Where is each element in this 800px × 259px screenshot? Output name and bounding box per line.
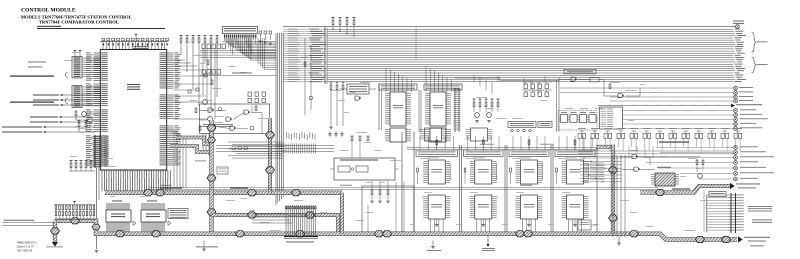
vertical bus from watchdog area bbox=[268, 118, 272, 194]
U801 bottom pin labels bbox=[101, 172, 102, 178]
SQL output header U811 bbox=[464, 150, 504, 157]
verticals from resistor row to hold logic bbox=[628, 146, 630, 158]
ground under U812B bbox=[528, 219, 530, 224]
mux bus sheet label bbox=[46, 246, 63, 249]
line driver IC U810B bbox=[428, 195, 445, 219]
discrete wires right of U801 bbox=[202, 48, 204, 95]
line driver IC U812A bbox=[521, 160, 538, 184]
resistor R810 bbox=[195, 108, 197, 113]
dashed group resistor pack bbox=[558, 111, 597, 131]
address bus knots bbox=[144, 190, 153, 196]
diode/resistor cluster CR801-CR808 bbox=[524, 84, 528, 89]
address bus label bbox=[160, 188, 182, 189]
address bus thick bbox=[105, 191, 342, 195]
hold bus control label bbox=[659, 142, 689, 143]
hold logic to offpage wires bbox=[656, 147, 712, 149]
resistor above U812A bbox=[528, 140, 530, 145]
resistor R813 bbox=[211, 80, 213, 85]
line phones label box bbox=[709, 192, 726, 197]
pull-up resistor row R825-R828 bbox=[202, 70, 205, 75]
net label MUX BUS 7-0 with brace bbox=[10, 102, 54, 103]
cable connector bar bbox=[284, 236, 318, 238]
resistor R812 bbox=[207, 60, 209, 65]
bus spine vertical bbox=[324, 27, 326, 84]
bi-directional data bus drivers note box bbox=[168, 209, 188, 219]
line driver IC U812B bbox=[521, 195, 538, 219]
bottom bus sheet label bbox=[744, 236, 770, 239]
signal lines from aux box to offpage circles bbox=[623, 110, 734, 112]
bundle elbow wires to comb bbox=[276, 143, 285, 145]
discrete group with transistors mid sheet bbox=[473, 99, 475, 101]
labels above row B ICs bbox=[427, 157, 439, 160]
bus driver IC U802A bottom pins bbox=[106, 222, 108, 232]
junction dots on bus spine bbox=[324, 29, 325, 30]
connector label 4-19 channel bbox=[748, 205, 772, 208]
bus feeder wires from bundle bbox=[283, 28, 325, 30]
gate U806A bbox=[571, 77, 576, 81]
RAM IC U804 body bbox=[390, 92, 406, 126]
resistor R803 bbox=[75, 111, 77, 116]
wire bundle from watchdog descending bbox=[202, 134, 204, 151]
resistor network RN802 bbox=[72, 86, 82, 108]
vertical thick bus knots bbox=[207, 125, 216, 131]
gate U806B bbox=[618, 94, 623, 98]
vertical bus right section bbox=[611, 145, 615, 234]
wires under hold logic descending bbox=[612, 155, 614, 237]
U821 labels bbox=[657, 166, 671, 169]
discretes beside U810A bbox=[449, 163, 451, 180]
feeder lines into cable bbox=[252, 213, 286, 215]
watchdog logic group box bbox=[200, 104, 270, 134]
SQL output header U813 bbox=[555, 150, 595, 157]
ground under U813B bbox=[574, 219, 576, 224]
pin bus to hold logic bbox=[640, 186, 730, 193]
cable to sheet 2 vertical lines bbox=[285, 205, 287, 237]
small box right section lower bbox=[578, 220, 591, 230]
grid top bus corner segment bbox=[596, 145, 611, 149]
fan-out wires from J801 to bundle bbox=[224, 38, 226, 42]
pull-up resistor row R820-R824 bbox=[202, 44, 205, 49]
left comb at x600 mid bbox=[598, 162, 604, 164]
capacitor C810 bbox=[188, 90, 191, 93]
offpage circles column right mid bbox=[734, 146, 738, 150]
upper partial ICs in grid columns bbox=[425, 128, 442, 141]
crystal Y801 label bbox=[133, 45, 148, 48]
extra fan wires expansion connector bbox=[257, 38, 259, 63]
scattered component value labels bbox=[185, 41, 190, 44]
grid top rail pair bbox=[407, 147, 598, 149]
gate U803B bbox=[226, 117, 231, 121]
resistors above line clock box bbox=[351, 136, 353, 141]
line driver IC U811B bbox=[475, 195, 492, 219]
bus line labels left column bbox=[309, 28, 319, 31]
transistor Q806 bbox=[475, 113, 480, 118]
ground right section bbox=[617, 242, 621, 244]
net labels left of MPU bbox=[33, 95, 59, 96]
RAM IC U804 lower body bbox=[390, 128, 406, 142]
connector reference labels top left bbox=[28, 61, 46, 64]
rails between RAM and EEPROM bbox=[418, 90, 420, 132]
resistor above U813A bbox=[574, 140, 576, 145]
bus line labels inner column bbox=[288, 28, 297, 31]
capacitor C812 bbox=[204, 74, 207, 77]
bus driver IC U802A top pins bbox=[106, 203, 108, 210]
net labels PWR FAIL / VMA RAM rows bbox=[2, 127, 42, 128]
line clock driver box U808 bbox=[334, 158, 395, 180]
resistor R830 bbox=[609, 84, 611, 89]
discretes right of U821 bbox=[696, 160, 698, 165]
vertical wire with resistor R829 bbox=[304, 38, 306, 115]
EEPROM IC U805 body bbox=[430, 92, 446, 126]
connector dots under serial IO bbox=[511, 129, 514, 132]
wires below ribbon P801 bbox=[96, 168, 98, 249]
svg-text:CONTROL MODULE: CONTROL MODULE bbox=[21, 8, 76, 14]
column rails for line driver grid bbox=[401, 132, 403, 233]
wires from U813B to bus bbox=[568, 219, 570, 232]
capacitor C811 bbox=[196, 88, 199, 91]
discrete wires right cluster bbox=[174, 69, 204, 71]
EEPROM IC U805 lower body bbox=[430, 128, 446, 142]
address/data bus top line bbox=[283, 26, 736, 28]
wires from grid to left labels bbox=[2, 221, 54, 223]
vertical bus bundle bbox=[275, 33, 277, 205]
offpage arrows right of connector bottom bbox=[752, 219, 772, 222]
gate U820B bbox=[634, 167, 639, 171]
wires from column ICs up to bus bbox=[385, 84, 387, 92]
wires from bus to RAM column bbox=[385, 68, 387, 92]
pull-up resistor row right of U801 bbox=[180, 36, 182, 38]
reset line label bbox=[232, 72, 252, 75]
wires from U801 right pins descending bbox=[173, 130, 175, 188]
group box under line clock bbox=[362, 186, 414, 232]
resistor above U811A bbox=[482, 140, 484, 145]
line driver IC U810A bbox=[428, 160, 445, 184]
transistor Q802 bbox=[88, 118, 93, 123]
aux box with comb x600 bbox=[600, 107, 623, 129]
net label MUX BUS 15-8 with brace bbox=[10, 76, 54, 77]
resistor R811 bbox=[199, 126, 201, 131]
expansion connector J801 pin row bbox=[224, 35, 225, 38]
wires from U812B to bus bbox=[522, 219, 524, 232]
grounds under Q806 Q807 bbox=[475, 120, 479, 122]
transistor Q804 bbox=[208, 117, 213, 122]
expansion connector J801 label box bbox=[223, 27, 258, 34]
junction dots on bus bbox=[332, 29, 333, 30]
capacitors right of J801 bbox=[259, 31, 262, 34]
bus crossing wire bbox=[415, 27, 417, 60]
hold logic wires bbox=[620, 156, 632, 158]
ground under U811B bbox=[482, 219, 484, 224]
line driver IC U813A bbox=[567, 160, 584, 184]
label left of vertical bus bbox=[195, 160, 206, 163]
latch output lines with ticks bbox=[216, 145, 334, 147]
A+ line to all sheets bbox=[598, 105, 731, 107]
direction triangles bbox=[133, 221, 136, 225]
wires above U810 header bbox=[419, 136, 421, 150]
vertical wire with cap C813 bbox=[310, 45, 312, 110]
bus driver IC U802B bottom pins bbox=[141, 222, 143, 232]
bus pull-up resistors bbox=[332, 18, 334, 20]
vertical ribbon right of U805 bbox=[454, 88, 456, 132]
title rule bbox=[37, 28, 165, 30]
gate U803E bbox=[230, 126, 235, 130]
power taps above RN801 bbox=[74, 51, 76, 53]
staircase bus upper step bbox=[176, 138, 212, 145]
U801 right pin ticks and labels bbox=[167, 52, 174, 54]
transistor Q803 bbox=[203, 100, 208, 105]
SPI logic wiring bbox=[559, 79, 571, 81]
gate U803C bbox=[244, 110, 249, 114]
gate U820A bbox=[632, 155, 637, 159]
wires from U810B to bus bbox=[429, 219, 431, 232]
bus riser at line clock column bbox=[340, 193, 344, 234]
delay box on vertical bus bbox=[217, 167, 228, 174]
resistor above U810A bbox=[436, 140, 438, 145]
labels above bus right end bbox=[733, 20, 744, 23]
MPU IC U801 body bbox=[100, 50, 166, 171]
wires above U811 header bbox=[467, 136, 469, 150]
bus driver IC U802B top pins bbox=[141, 203, 143, 210]
gate U807B bbox=[355, 96, 360, 100]
address latch U807 bbox=[347, 84, 369, 94]
connector J802 feeder vertical bbox=[706, 195, 708, 232]
resistor network RN801 bbox=[72, 57, 82, 79]
SQL output header U812 bbox=[509, 150, 549, 157]
EEPROM IC U805 header bbox=[424, 84, 462, 90]
label under mid bus bbox=[196, 246, 218, 249]
offpage circle at top bus line end bbox=[736, 25, 740, 29]
discretes beside U812A bbox=[542, 163, 544, 180]
mux bus vertical drop to sheet arrow bbox=[53, 221, 57, 242]
transistor Q807 bbox=[487, 113, 492, 118]
horizontal rail above driver grid bbox=[150, 186, 658, 188]
discretes beside U811A bbox=[496, 163, 498, 180]
load resistor network row bbox=[578, 134, 581, 139]
SQL output header U810 bbox=[416, 150, 458, 157]
ground under watchdog area bbox=[202, 248, 206, 250]
U801 bottom pin ticks into address bus bbox=[101, 170, 103, 191]
U801 top pin ticks bbox=[102, 41, 104, 49]
serial IO shift register label boxes bbox=[508, 122, 536, 128]
wires line clock to bottom bus bbox=[367, 205, 369, 232]
hold bus IC U821 bbox=[655, 173, 675, 186]
main horizontal bus lines bbox=[327, 28, 733, 30]
discrete row left of ribbon base bbox=[70, 161, 72, 163]
power tap above U801 bbox=[135, 34, 137, 36]
bus driver IC U802B bbox=[141, 210, 166, 222]
pin bus labels bbox=[672, 189, 690, 190]
capacitor row above line clock box bbox=[329, 131, 331, 137]
gate U803A bbox=[208, 108, 213, 112]
arrow to sheet below mid bus bbox=[487, 236, 489, 244]
watchdog extra wiring bbox=[200, 126, 211, 128]
transistor Q801 bbox=[82, 112, 87, 117]
U801 left pin ticks and labels bbox=[94, 52, 101, 54]
svg-text:3615399-GP: 3615399-GP bbox=[17, 249, 33, 253]
gate U803D bbox=[210, 124, 215, 128]
bus group labels TO ALL SHEETS bbox=[757, 41, 768, 44]
termination resistor grid RN803 bbox=[74, 202, 76, 204]
mid bus thick bbox=[212, 215, 339, 234]
RAM IC U804 header bbox=[379, 84, 417, 90]
resistors to ground under line clock bbox=[371, 180, 373, 190]
watchdog wiring bbox=[200, 110, 209, 112]
RAM column rails bbox=[378, 84, 380, 130]
pullup on VMA RAM line bbox=[78, 121, 80, 123]
bus lines through resistor row bbox=[578, 150, 734, 152]
discrete grid right of watchdog bbox=[248, 92, 252, 96]
signal lines below bus block bbox=[560, 87, 733, 89]
SPI interface logic label bbox=[564, 70, 596, 74]
discretes left of RAM column bbox=[330, 82, 332, 84]
mux bus knots bbox=[71, 218, 80, 224]
vertical bus left of grid bbox=[209, 120, 213, 234]
ground below ribbon bbox=[95, 250, 99, 252]
U801 reference label bbox=[127, 84, 140, 85]
bypass capacitor row above U801 bbox=[100, 40, 168, 42]
cable label TO SHEET 2 bbox=[286, 241, 314, 244]
wires above U813 header bbox=[558, 136, 560, 150]
ribbon connector P801 bbox=[96, 135, 101, 168]
line driver IC U811A bbox=[475, 160, 492, 184]
wires from U811B to bus bbox=[476, 219, 478, 232]
wire fan into bundle bbox=[228, 141, 283, 143]
ground under U810B bbox=[436, 219, 438, 224]
discretes beside U813A bbox=[588, 163, 590, 180]
wire rows right of driver grid bbox=[580, 157, 622, 159]
staircase bus lower step bbox=[170, 146, 212, 152]
channel bus expander connector J802 bbox=[730, 193, 732, 233]
wires joining Q803 Q804 to U801 bbox=[174, 101, 203, 103]
tick labels above latch lines bbox=[285, 132, 288, 138]
wires above U812 header bbox=[512, 136, 514, 150]
discretes in watchdog box bbox=[255, 106, 257, 111]
wires from bus to mid discretes bbox=[473, 76, 475, 82]
U802 labels above bbox=[112, 200, 122, 203]
line driver IC U813B bbox=[567, 195, 584, 219]
bus right brace groups bbox=[752, 32, 756, 52]
stepped wire from latch to SPI bbox=[455, 77, 500, 79]
svg-text:TRN7704F COMPARATOR CONTROL: TRN7704F COMPARATOR CONTROL bbox=[39, 20, 119, 25]
bus driver IC U802A bbox=[106, 210, 131, 222]
mux bus thick bottom-left bbox=[55, 221, 737, 240]
